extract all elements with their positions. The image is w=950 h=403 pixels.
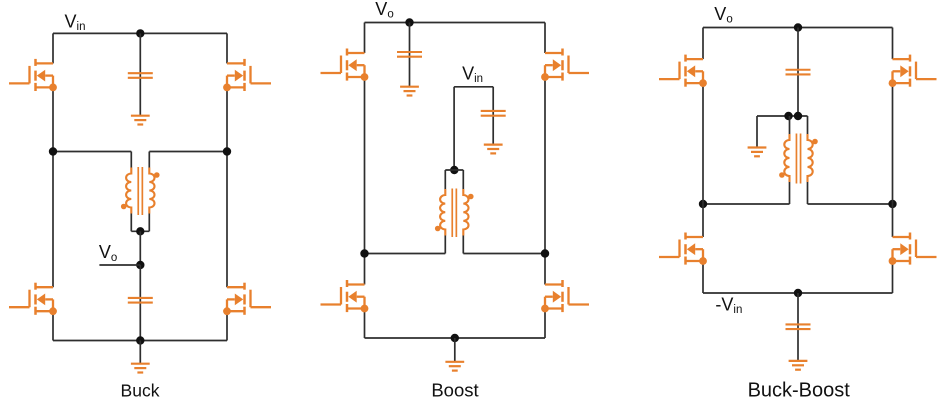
- svg-text:Vo: Vo: [99, 242, 117, 264]
- svg-text:Boost: Boost: [431, 379, 478, 400]
- svg-text:Vin: Vin: [65, 11, 86, 33]
- svg-text:Vo: Vo: [714, 4, 732, 26]
- svg-text:-Vin: -Vin: [715, 294, 742, 316]
- svg-text:Vo: Vo: [375, 0, 393, 21]
- svg-text:Vin: Vin: [462, 63, 483, 85]
- svg-text:Buck: Buck: [121, 380, 160, 400]
- svg-text:Buck-Boost: Buck-Boost: [748, 379, 851, 401]
